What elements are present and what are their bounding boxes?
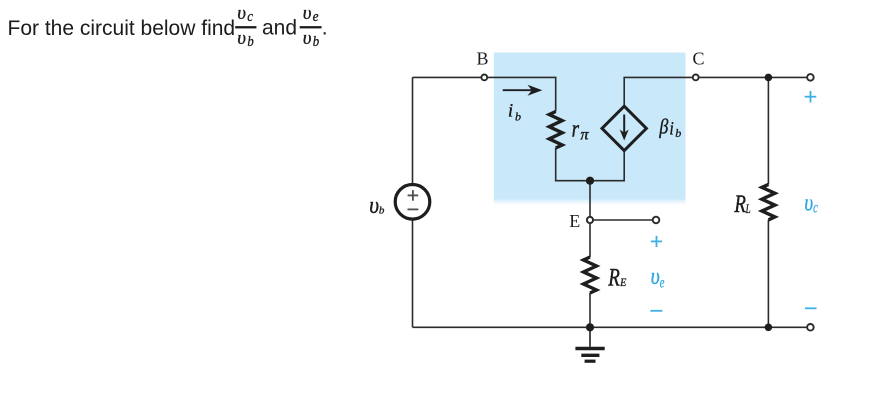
fraction vc/vb bbox=[235, 3, 321, 50]
svg-text:υ: υ bbox=[303, 3, 312, 24]
svg-text:υ: υ bbox=[651, 262, 660, 290]
svg-text:υ: υ bbox=[804, 188, 813, 216]
svg-text:C: C bbox=[693, 48, 705, 68]
svg-text:c: c bbox=[247, 9, 253, 25]
wire: node C to right terminal bbox=[699, 76, 806, 78]
wire: top left from source to node B bbox=[413, 76, 482, 78]
svg-text:e: e bbox=[660, 273, 665, 291]
wire: RL branch below resistor bbox=[767, 220, 769, 327]
junction dot at top right (C rail / RL) bbox=[765, 74, 773, 82]
svg-text:.: . bbox=[322, 17, 328, 40]
current arrow i_b bbox=[503, 85, 543, 96]
label vb (source) bbox=[369, 100, 750, 291]
svg-text:υ: υ bbox=[303, 28, 312, 49]
resistor RE (R2) bbox=[584, 257, 597, 293]
wire: diamond bottom to common node bbox=[590, 151, 624, 181]
wire: r_pi bottom to common node bbox=[556, 148, 590, 181]
svg-text:b: b bbox=[247, 34, 253, 50]
wire: common node down to node E bbox=[589, 181, 591, 217]
svg-text:i: i bbox=[669, 117, 674, 139]
voltage source vb (V1) bbox=[395, 185, 430, 220]
shaded transistor-model box bbox=[494, 53, 686, 200]
terminal circle: E output bbox=[653, 217, 660, 224]
terminal circle: bottom right vc- bbox=[807, 324, 814, 331]
terminal circle: top right vc+ bbox=[807, 74, 814, 81]
cyan labels bbox=[651, 188, 818, 291]
svg-text:c: c bbox=[813, 198, 818, 216]
svg-text:E: E bbox=[619, 276, 626, 289]
junction dot at ground rail / RE bbox=[586, 323, 594, 331]
junction dot at bottom right (rail / RL) bbox=[765, 324, 773, 332]
wire: node E output stub bbox=[594, 219, 653, 221]
junction dot at common node bbox=[586, 177, 594, 185]
wire: RE bottom to ground rail bbox=[589, 293, 591, 327]
minus sign bottom right bbox=[805, 307, 817, 309]
node B open circle bbox=[481, 75, 487, 81]
resistor RL (R3) bbox=[762, 184, 775, 220]
svg-text:R: R bbox=[607, 263, 620, 291]
arrow inside dependent source bbox=[620, 115, 629, 141]
plus sign at E output bbox=[651, 240, 662, 242]
svg-text:υ: υ bbox=[237, 3, 246, 24]
svg-text:B: B bbox=[477, 48, 489, 68]
title text bbox=[8, 3, 328, 50]
svg-text:r: r bbox=[572, 116, 580, 143]
svg-text:E: E bbox=[569, 211, 580, 231]
plus sign top right bbox=[805, 96, 817, 98]
svg-text:For the circuit below find: For the circuit below find bbox=[8, 17, 236, 40]
svg-text:υ: υ bbox=[369, 190, 379, 218]
ground bbox=[575, 327, 604, 361]
resistor r_pi (R1) bbox=[549, 112, 562, 149]
wire: node E to RE bbox=[589, 224, 591, 258]
node E open circle bbox=[587, 217, 593, 223]
wire: left branch above source vb bbox=[412, 77, 414, 184]
wire: RL branch above resistor bbox=[767, 77, 769, 184]
svg-text:b: b bbox=[379, 205, 385, 217]
svg-text:π: π bbox=[580, 127, 589, 144]
svg-text:and: and bbox=[262, 17, 297, 40]
svg-text:R: R bbox=[734, 189, 747, 217]
svg-text:b: b bbox=[675, 126, 681, 140]
wire: diamond top to node C bbox=[624, 77, 692, 106]
node C open circle bbox=[693, 75, 699, 81]
dependent current source beta*ib (diamond) bbox=[602, 106, 646, 150]
svg-text:L: L bbox=[745, 203, 751, 217]
svg-text:b: b bbox=[313, 34, 319, 50]
wire: node B to r_pi branch corner bbox=[488, 77, 556, 111]
minus sign near ve bbox=[650, 310, 662, 312]
svg-text:υ: υ bbox=[237, 28, 246, 49]
svg-text:i: i bbox=[508, 100, 513, 121]
wire: bottom rail bbox=[413, 326, 807, 328]
svg-text:β: β bbox=[658, 115, 668, 139]
wire: left branch below source vb bbox=[412, 219, 414, 327]
svg-text:b: b bbox=[515, 110, 521, 124]
svg-text:e: e bbox=[313, 8, 319, 25]
